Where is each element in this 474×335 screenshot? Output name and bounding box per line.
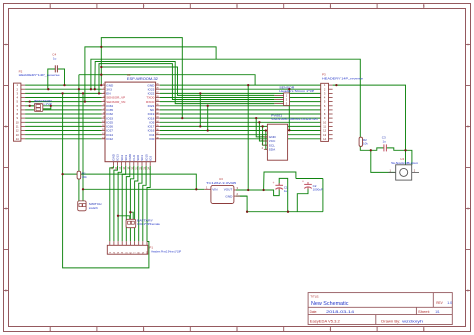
wire mid line M3 to sensor pin2 [99, 64, 274, 100]
wire C2 top line y=178.5 [296, 178, 323, 180]
svg-text:13: 13 [16, 133, 19, 137]
svg-text:switch: switch [89, 206, 99, 210]
wire mid line M1 to R2 [91, 59, 360, 137]
svg-text:10k: 10k [82, 175, 87, 179]
wire rail right riser to C2 line [322, 179, 324, 212]
wire C1 top to rail riser [279, 178, 288, 211]
svg-text:VIN: VIN [212, 188, 217, 192]
svg-text:C34 1*2PFemale: C34 1*2PFemale [137, 222, 160, 226]
svg-text:Date:: Date: [310, 310, 318, 314]
svg-text:SSD1306-128x64-OLED-I2C: SSD1306-128x64-OLED-I2C [271, 117, 319, 121]
svg-text:1000uF: 1000uF [313, 188, 323, 192]
wire INPUTAMP pin stubs to rows 5-6 [30, 101, 35, 103]
wire IO21 jumper to row12 [207, 106, 209, 131]
svg-text:IO2: IO2 [148, 156, 152, 161]
wire VOUT riser to top power line [247, 85, 249, 190]
title block [308, 293, 452, 325]
wire battery pin2 to P1 wire6 [130, 212, 133, 219]
svg-text:B: B [467, 125, 469, 129]
wire ground rail y=211.7 [247, 211, 323, 213]
resistor R1 [77, 171, 81, 179]
wire battery pin1 to P1 wire3 [118, 216, 130, 220]
wire U3 GND drop [236, 196, 247, 212]
svg-text:A: A [5, 43, 7, 47]
wire top nest N2 [85, 47, 216, 102]
wire switch pin2 vertical to row3 [82, 93, 84, 200]
svg-text:New Schematic: New Schematic [311, 301, 349, 307]
svg-text:11: 11 [16, 125, 19, 129]
svg-text:GND: GND [225, 195, 233, 199]
svg-text:+: + [273, 181, 275, 185]
svg-text:14: 14 [16, 137, 19, 141]
svg-text:ESP-WROOM-32: ESP-WROOM-32 [127, 77, 158, 81]
svg-text:IO0: IO0 [149, 137, 154, 141]
wire 3V3 line y=174.1 to VIN riser [63, 174, 197, 189]
wire C3 rail from R2 bottom [360, 146, 384, 150]
svg-text:HEADERY'14P_reverse: HEADERY'14P_reverse [19, 73, 60, 77]
svg-text:13: 13 [323, 133, 326, 137]
svg-text:10: 10 [323, 120, 326, 124]
wire OLED staircase branches rows 9-12 [256, 118, 267, 137]
wire power row1 right section to button [333, 85, 406, 165]
svg-text:1/1: 1/1 [435, 310, 440, 314]
junction dots [63, 84, 65, 86]
frame row ticks and letters [4, 44, 9, 46]
wire IO22 jumper to row11 [199, 93, 201, 126]
svg-text:REV: REV [436, 301, 443, 305]
svg-text:Sheet:: Sheet: [418, 310, 430, 314]
wire EN loop to P1 pin10 [63, 93, 149, 268]
wire C2 feed from VOUT [264, 172, 296, 190]
wire top nest N1 [101, 38, 182, 119]
wire R1 EN line y=74.7 [79, 75, 255, 85]
wire R1 vertical to switch pin1 [78, 75, 80, 172]
svg-text:2018-03-14: 2018-03-14 [326, 310, 354, 314]
wire U3 VOUT line with C1 jog [236, 189, 279, 196]
wire C2 bottom to rail [297, 187, 308, 212]
svg-text:TC1262-3.3VAB: TC1262-3.3VAB [206, 181, 236, 185]
svg-text:14: 14 [323, 137, 326, 141]
svg-text:10k: 10k [363, 142, 368, 146]
svg-text:VOUT: VOUT [224, 188, 233, 192]
wire VIN line y=189.3 [83, 188, 204, 190]
svg-text:12: 12 [16, 129, 19, 133]
wire P2 rows 1-14 to ESP32 left pins [25, 84, 101, 86]
wire C4 right lead and drop to row1 [57, 69, 64, 85]
wire IO23 jumper behind sensor to row12 stub [288, 89, 290, 130]
svg-text:1u: 1u [383, 139, 387, 143]
svg-text:B: B [5, 125, 7, 129]
frame column ticks and numbers [49, 4, 51, 9]
svg-text:1.0: 1.0 [447, 301, 452, 305]
svg-text:SDA: SDA [269, 148, 276, 152]
svg-text:EasyEDA V5.3.2: EasyEDA V5.3.2 [310, 319, 340, 323]
wire button U4 left pin to R2/C3 junction [371, 150, 395, 172]
svg-text:IO12: IO12 [106, 137, 113, 141]
svg-text:TITLE:: TITLE: [310, 294, 319, 298]
svg-text:12: 12 [323, 129, 326, 133]
wire C4 left lead and drop to row2 [48, 69, 56, 89]
svg-text:Drawn By:: Drawn By: [381, 319, 400, 323]
svg-text:1u: 1u [53, 57, 57, 61]
svg-text:+: + [302, 179, 304, 183]
wire mid line M2 to sensor pin3 [95, 62, 274, 104]
svg-text:wzdxxyh: wzdxxyh [402, 319, 423, 323]
capacitor C1 polarized [275, 184, 283, 186]
wire ESP32 right rows 1-14 to P3 [160, 84, 321, 86]
resistor R2 [359, 137, 362, 146]
wire ESP bottom pins to P1 header [110, 166, 114, 241]
svg-text:Headers Pins2.54mm1*10P: Headers Pins2.54mm1*10P [151, 250, 181, 254]
wire mid line M4 to sensor pin1 [101, 67, 274, 95]
svg-text:A: A [467, 43, 469, 47]
svg-text:HEADERY'14P_reverse: HEADERY'14P_reverse [322, 76, 363, 80]
svg-text:1u: 1u [284, 189, 288, 193]
capacitor C2 polarized 1000uF [304, 183, 312, 185]
wire INPUTAMP pin2 jog right [43, 106, 51, 109]
svg-text:10: 10 [16, 120, 19, 124]
